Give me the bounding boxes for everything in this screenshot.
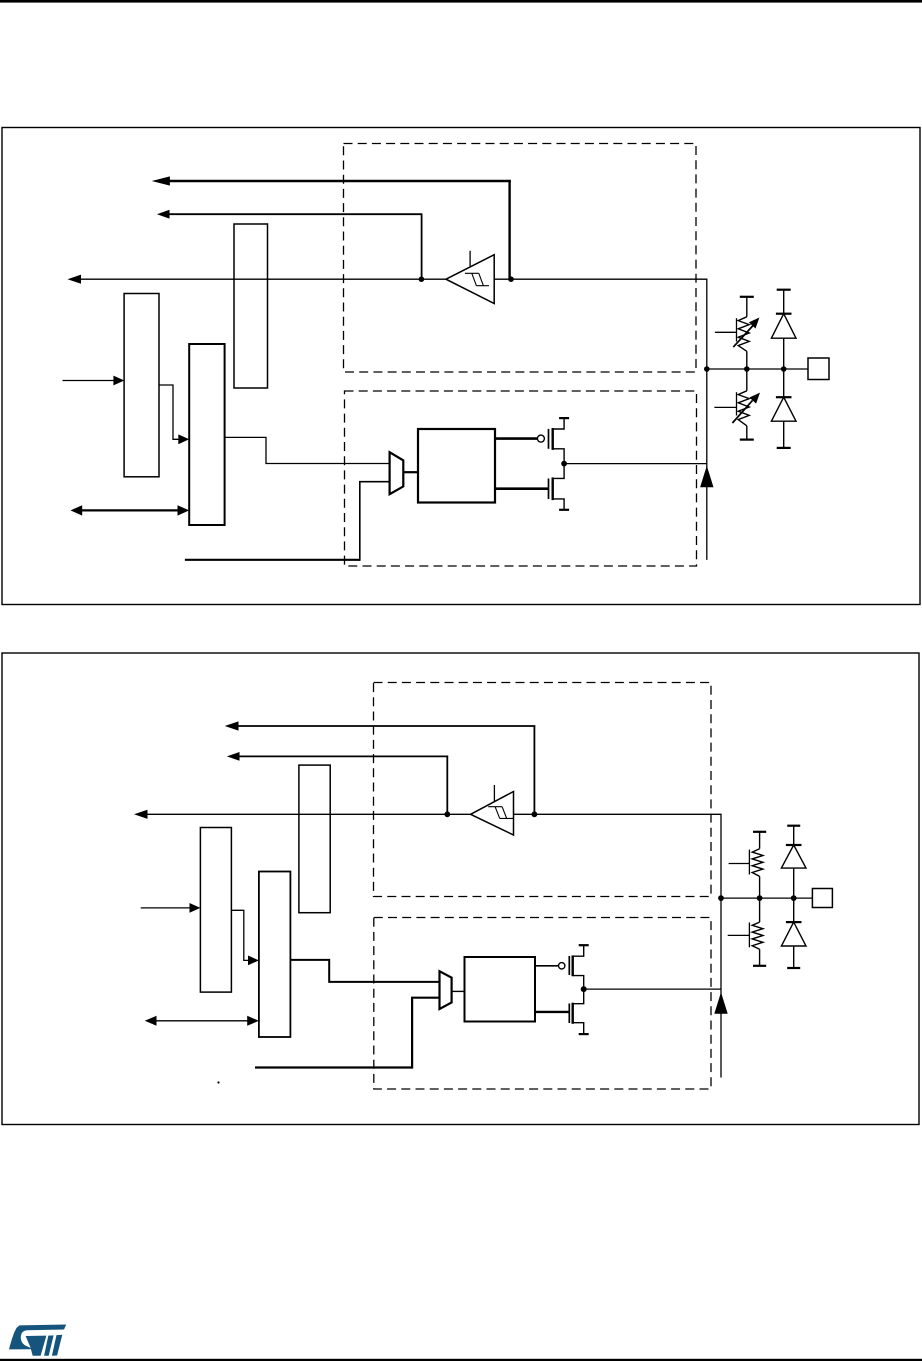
protection diode bottom (fig 1) xyxy=(771,369,796,448)
wire: read-data bus arrow (fig 1) xyxy=(168,180,511,183)
wire: block B to mux (fig 2) xyxy=(290,960,439,982)
protection diode top (fig 2) xyxy=(781,826,806,898)
resistor: weak pull-up (fig 2) xyxy=(729,832,763,898)
wire: second arrow (fig 1) xyxy=(168,213,422,215)
VSS rail for pull-down (fig 2) xyxy=(753,965,766,967)
node: driver output (fig 2) xyxy=(581,986,587,992)
dashed box: output driver (fig 2) xyxy=(374,918,711,1090)
VDD_FT rail for protection diode (fig 2) xyxy=(787,825,800,827)
transistor P-MOS (fig 2) xyxy=(535,945,589,989)
arrow: to I/O pad up (fig 1) xyxy=(700,466,713,488)
wire: write input arrow (fig 2) xyxy=(141,907,191,909)
output control block (fig 2) xyxy=(465,957,536,1022)
wire: block A to block B connector (fig 1) xyxy=(159,385,179,439)
wire: block B to mux (fig 1) xyxy=(225,437,390,463)
wire: vertical from schmitt input to top arrow (fig 2) xyxy=(533,726,535,814)
mux (fig 1) xyxy=(390,452,404,494)
ST logo xyxy=(9,1325,66,1356)
wire: analog vertical to mux (fig 1) xyxy=(360,482,390,561)
transistor N-MOS (fig 1) xyxy=(495,464,569,510)
register block C (fig 2) xyxy=(299,765,330,913)
wire: bidirectional data arrow (fig 2) xyxy=(153,1020,250,1022)
protection diode bottom (fig 2) xyxy=(781,898,806,968)
wire: mux output (fig 2) xyxy=(452,990,465,992)
node: diode junction (fig 1) xyxy=(781,366,787,372)
register block B (fig 2) xyxy=(259,872,291,1038)
VDD rail for pull-up (fig 2) xyxy=(753,831,766,833)
top header rule xyxy=(0,0,922,3)
arrow: programmable pull-down (fig 1) xyxy=(732,400,752,423)
wire: input data arrow left (fig 1) xyxy=(78,278,446,280)
wire: output driver drain to pad (fig 2) xyxy=(584,988,721,990)
node: schmitt input junction (fig 1) xyxy=(508,276,514,282)
resistor: weak pull-down (fig 1) xyxy=(714,369,749,440)
wire: analog line (fig 2) xyxy=(255,1066,412,1068)
VSS rail for pull-down (fig 1) xyxy=(740,439,754,441)
bottom footer rule xyxy=(0,1359,922,1361)
wire: read-data bus arrow (fig 2) xyxy=(238,725,535,727)
transistor N-MOS (fig 2) xyxy=(535,989,589,1034)
wire: output driver drain to pad (fig 1) xyxy=(564,463,707,465)
wire: vertical from schmitt output to top arrow (fig 1) xyxy=(508,181,510,279)
node: pull resistor junction (fig 2) xyxy=(757,895,763,901)
transistor P-MOS (fig 1) xyxy=(495,418,569,464)
arrow: to I/O pad up (fig 2) xyxy=(714,992,727,1014)
dashed box: output driver (fig 1) xyxy=(345,391,697,566)
figure 2 frame xyxy=(2,653,919,1125)
wire: schmitt input (fig 2) xyxy=(514,813,722,815)
wire: block A to block B connector (fig 2) xyxy=(231,910,249,960)
dashed box: input driver (fig 2) xyxy=(374,683,712,897)
wire: vertical to schmitt output node (fig 1) xyxy=(421,214,423,279)
wire: vertical pad line (fig 2) xyxy=(720,814,722,1077)
resistor: weak pull-down (fig 2) xyxy=(728,898,763,966)
node: driver output (fig 1) xyxy=(561,461,567,467)
wire: second arrow (fig 2) xyxy=(238,755,448,757)
wire: schmitt input (fig 1) xyxy=(494,278,707,280)
wire: mux output (fig 1) xyxy=(403,471,418,473)
VSS rail for protection diode (fig 1) xyxy=(777,447,791,449)
wire: I/O pad bus (fig 1) xyxy=(707,368,808,370)
node: diode junction (fig 2) xyxy=(791,895,797,901)
register block A (fig 2) xyxy=(200,828,231,993)
node: pull resistor junction (fig 1) xyxy=(744,366,750,372)
VDD_FT rail for protection diode (fig 1) xyxy=(777,289,791,291)
output control block (fig 1) xyxy=(418,429,495,503)
mux (fig 2) xyxy=(440,971,452,1009)
register block A (fig 1) xyxy=(124,294,159,477)
protection diode top (fig 1) xyxy=(771,290,796,369)
dashed box: input driver (fig 1) xyxy=(344,144,697,373)
I/O pin pad square (fig 2) xyxy=(812,889,832,908)
schmitt trigger U1 (fig 2) xyxy=(471,792,514,836)
wire: vertical pad line (fig 1) xyxy=(706,279,708,560)
wire: write input arrow (fig 1) xyxy=(63,380,116,382)
wire: bidirectional data arrow (fig 1) xyxy=(80,509,180,511)
I/O pin pad square (fig 1) xyxy=(808,358,829,380)
VDD rail for pull-up (fig 1) xyxy=(740,296,754,298)
wire: I/O pad bus (fig 2) xyxy=(721,897,812,899)
figure 1 frame xyxy=(2,128,920,605)
stray mark (period of hidden text, fig 2) xyxy=(217,1081,219,1083)
schmitt trigger U1 (fig 1) xyxy=(446,255,494,304)
resistor: weak pull-up (fig 1) xyxy=(715,297,749,369)
register block C (fig 1) xyxy=(234,224,268,388)
node: pad junction left (fig 1) xyxy=(704,366,710,372)
node: pad junction left (fig 2) xyxy=(718,895,724,901)
wire: input data arrow left (fig 2) xyxy=(145,813,471,815)
node: schmitt output junction (fig 1) xyxy=(419,276,425,282)
wire: analog vertical to mux (fig 2) xyxy=(412,998,439,1069)
node: schmitt input junction (fig 2) xyxy=(532,811,538,817)
node: schmitt output junction (fig 2) xyxy=(444,811,450,817)
arrow: programmable pull-up (fig 1) xyxy=(733,325,753,347)
register block B (fig 1) xyxy=(189,344,224,525)
wire: analog line (fig 1) xyxy=(185,559,360,561)
wire: vertical to schmitt output node (fig 2) xyxy=(446,756,448,814)
VSS rail for protection diode (fig 2) xyxy=(787,967,800,969)
